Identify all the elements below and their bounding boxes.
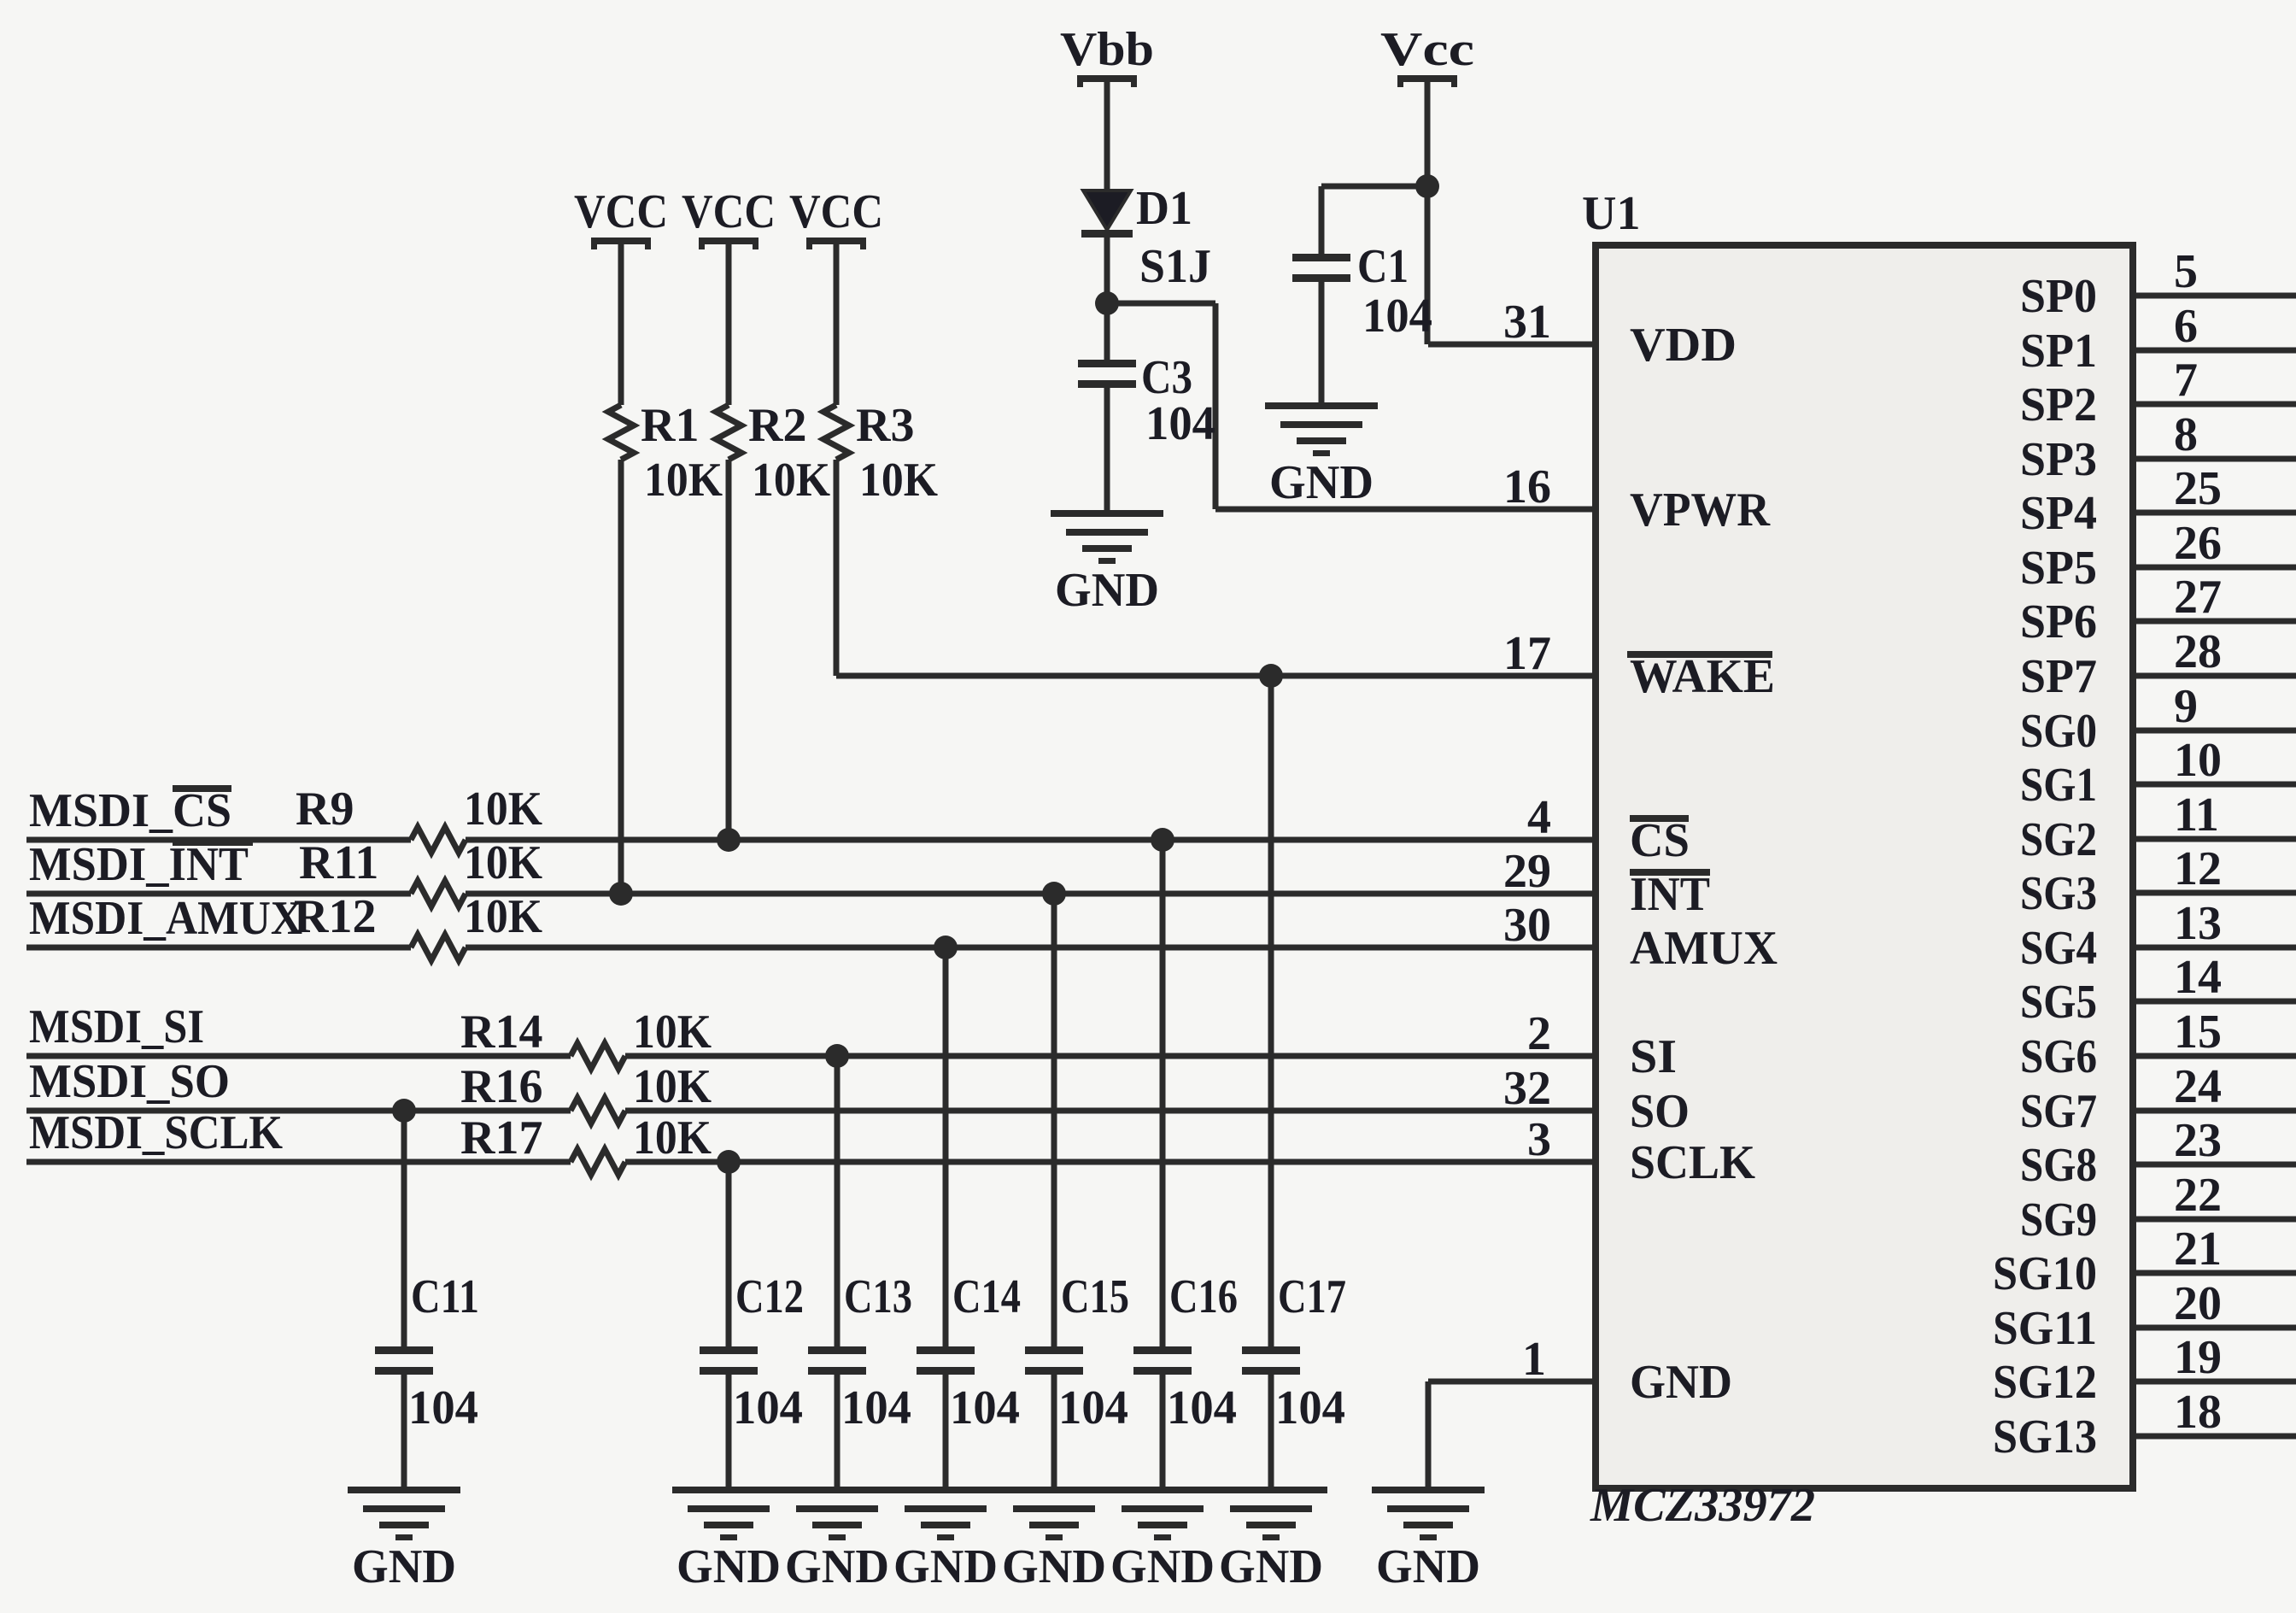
svg-text:24: 24 (2174, 1060, 2222, 1113)
svg-text:104: 104 (408, 1381, 478, 1434)
wire WAKE down to C17 (1268, 676, 1274, 1346)
svg-text:SG13: SG13 (1993, 1411, 2097, 1463)
wire pin 11 SG2 (2133, 836, 2296, 842)
svg-text:MCZ33972: MCZ33972 (1590, 1479, 1815, 1532)
ground below C11 (348, 1487, 460, 1593)
capacitor C13 (808, 1270, 912, 1375)
svg-text:MSDI_CS: MSDI_CS (29, 784, 231, 837)
wire C1 top (1319, 186, 1325, 254)
svg-text:C3: C3 (1141, 351, 1192, 404)
svg-text:29: 29 (1503, 845, 1551, 898)
wire C17 to ground (1268, 1375, 1274, 1487)
wire pin 26 SP5 (2133, 565, 2296, 571)
svg-text:10K: 10K (464, 890, 542, 943)
resistor R16 (571, 1098, 625, 1123)
svg-text:10K: 10K (644, 454, 723, 507)
svg-text:SG7: SG7 (2020, 1085, 2097, 1138)
svg-text:C13: C13 (844, 1270, 912, 1323)
junction C17 to WAKE line (1259, 664, 1283, 688)
wire C12 to ground (726, 1375, 732, 1487)
wire resistor R2 down (726, 460, 732, 840)
svg-text:SG0: SG0 (2020, 705, 2097, 758)
svg-text:R1: R1 (641, 399, 699, 452)
wire pin 28 SP7 (2133, 673, 2296, 679)
power symbol Vbb supply (1060, 23, 1154, 87)
svg-text:C11: C11 (411, 1270, 479, 1323)
wire node to VPWR drop (1107, 301, 1215, 307)
capacitor C11 (375, 1270, 479, 1375)
svg-text:GND: GND (1055, 564, 1159, 617)
wire VCC to resistor R2 (726, 244, 732, 405)
node Vcc / C1 junction (1415, 174, 1439, 198)
svg-text:SP4: SP4 (2020, 487, 2097, 540)
capacitor C14 (917, 1270, 1021, 1375)
svg-text:VCC: VCC (682, 185, 776, 238)
svg-text:SG5: SG5 (2020, 976, 2097, 1029)
svg-text:19: 19 (2174, 1331, 2222, 1384)
wire pin 22 SG9 (2133, 1217, 2296, 1223)
junction C11 to SO line (392, 1099, 416, 1123)
wire pin1 to ground drop (1426, 1381, 1432, 1487)
svg-text:32: 32 (1503, 1062, 1551, 1115)
svg-text:14: 14 (2174, 951, 2222, 1004)
wire pin 9 SG0 (2133, 728, 2296, 734)
svg-text:11: 11 (2174, 789, 2219, 842)
junction C16 to CS line (1151, 828, 1174, 852)
wire pin 4 CS net (26, 837, 411, 843)
svg-text:SG6: SG6 (2020, 1030, 2097, 1083)
svg-text:GND: GND (676, 1540, 781, 1593)
svg-text:R3: R3 (856, 399, 914, 452)
svg-text:31: 31 (1503, 296, 1551, 349)
wire SCLK down to C12 (726, 1162, 732, 1346)
wire C16 to ground (1160, 1375, 1166, 1487)
svg-text:104: 104 (841, 1381, 911, 1434)
wire junction to C1 (1321, 184, 1427, 190)
svg-text:C15: C15 (1061, 1270, 1129, 1323)
svg-text:MSDI_AMUX: MSDI_AMUX (29, 892, 302, 945)
wire pin 29 INT net (26, 891, 411, 897)
wire Vcc down to VDD pin (1425, 82, 1431, 344)
wire C13 to ground (835, 1375, 840, 1487)
wire pin 7 SP2 (2133, 402, 2296, 408)
resistor R3 (823, 405, 849, 460)
svg-text:104: 104 (1167, 1381, 1237, 1434)
wire diode cathode to node (1104, 238, 1110, 360)
svg-text:Vcc: Vcc (1380, 23, 1474, 76)
wire C1 to ground (1319, 282, 1325, 402)
wire pin 1 GND (1428, 1379, 1596, 1385)
junction C14 to AMUX line (934, 936, 958, 959)
ground below C3 (1051, 510, 1163, 617)
ground below pin 1 (1372, 1487, 1485, 1593)
svg-text:R2: R2 (748, 399, 806, 452)
svg-text:18: 18 (2174, 1386, 2222, 1439)
svg-text:SP0: SP0 (2020, 270, 2097, 323)
svg-text:17: 17 (1503, 627, 1551, 680)
svg-text:MSDI_SCLK: MSDI_SCLK (29, 1106, 283, 1159)
svg-text:Vbb: Vbb (1060, 23, 1154, 76)
svg-text:R11: R11 (299, 836, 378, 889)
capacitor C16 (1133, 1270, 1238, 1375)
wire VCC to resistor R3 (834, 244, 840, 405)
svg-text:R12: R12 (294, 890, 376, 943)
wire pin 27 SP6 (2133, 619, 2296, 625)
svg-text:SI: SI (1630, 1030, 1677, 1083)
wire VCC to resistor R1 (618, 244, 624, 405)
svg-text:SG9: SG9 (2020, 1194, 2097, 1246)
svg-text:SP7: SP7 (2020, 650, 2097, 703)
wire INT down to C15 (1051, 894, 1057, 1346)
svg-text:MSDI_INT: MSDI_INT (29, 838, 249, 891)
svg-text:R17: R17 (460, 1112, 542, 1164)
svg-text:104: 104 (1362, 290, 1432, 343)
svg-text:C14: C14 (952, 1270, 1021, 1323)
svg-text:SP2: SP2 (2020, 378, 2097, 431)
svg-text:2: 2 (1527, 1007, 1551, 1060)
svg-text:VPWR: VPWR (1630, 484, 1771, 537)
power symbol Vcc supply (1380, 23, 1474, 87)
svg-text:SG4: SG4 (2020, 922, 2097, 975)
wire pin 21 SG10 (2133, 1270, 2296, 1276)
wire pin 3 SCLK net (26, 1159, 571, 1165)
svg-text:SG11: SG11 (1993, 1302, 2097, 1355)
svg-text:MSDI_SO: MSDI_SO (29, 1055, 230, 1108)
svg-text:16: 16 (1503, 460, 1551, 513)
svg-text:15: 15 (2174, 1006, 2222, 1059)
svg-text:WAKE: WAKE (1630, 650, 1775, 703)
wire pin 13 SG4 (2133, 945, 2296, 951)
svg-text:R16: R16 (460, 1060, 542, 1113)
svg-text:SG10: SG10 (1993, 1247, 2097, 1300)
svg-text:10K: 10K (633, 1006, 712, 1059)
resistor R17 (571, 1149, 625, 1175)
svg-text:3: 3 (1527, 1113, 1551, 1166)
wire SO down to C11 (401, 1111, 407, 1346)
svg-text:9: 9 (2174, 680, 2198, 733)
resistor R11 (411, 881, 466, 906)
svg-text:SP6: SP6 (2020, 595, 2097, 648)
wire AMUX down to C14 (943, 947, 949, 1346)
svg-text:GND: GND (893, 1540, 998, 1593)
svg-text:25: 25 (2174, 462, 2222, 515)
svg-text:12: 12 (2174, 842, 2222, 895)
svg-text:SG1: SG1 (2020, 759, 2097, 812)
svg-text:VCC: VCC (574, 185, 668, 238)
svg-text:5: 5 (2174, 245, 2198, 298)
wire pin 5 SP0 (2133, 293, 2296, 299)
junction C12 to SCLK line (717, 1150, 741, 1174)
wire pin 12 SG3 (2133, 890, 2296, 896)
svg-text:6: 6 (2174, 300, 2198, 353)
resistor R12 (411, 935, 466, 960)
svg-text:10K: 10K (633, 1112, 712, 1164)
svg-text:10K: 10K (464, 783, 542, 836)
svg-text:SP3: SP3 (2020, 433, 2097, 486)
svg-text:VDD: VDD (1630, 319, 1737, 372)
wire resistor R1 down (618, 460, 624, 894)
wire SI down to C13 (835, 1056, 840, 1346)
capacitor C1 (1292, 240, 1409, 293)
wire pin 20 SG11 (2133, 1325, 2296, 1331)
svg-text:GND: GND (1219, 1540, 1323, 1593)
junction C13 to SI line (825, 1044, 849, 1068)
power symbol VCC rail for R1 (574, 185, 668, 249)
power symbol VCC rail for R3 (789, 185, 883, 249)
svg-text:30: 30 (1503, 899, 1551, 952)
svg-text:22: 22 (2174, 1169, 2222, 1222)
capacitor C17 (1242, 1270, 1346, 1375)
svg-text:MSDI_SI: MSDI_SI (29, 1000, 204, 1053)
svg-text:U1: U1 (1582, 187, 1640, 240)
svg-text:C17: C17 (1278, 1270, 1346, 1323)
svg-text:GND: GND (1376, 1540, 1480, 1593)
wire pin 6 SP1 (2133, 348, 2296, 354)
wire C3 to ground (1104, 388, 1110, 510)
wire pin 2 SI net (26, 1053, 571, 1059)
ground below C13 (781, 1487, 893, 1593)
svg-text:SO: SO (1630, 1085, 1690, 1138)
svg-text:28: 28 (2174, 625, 2222, 678)
svg-text:S1J: S1J (1139, 240, 1211, 293)
svg-text:CS: CS (1630, 814, 1690, 867)
capacitor C15 (1025, 1270, 1129, 1375)
diode D1 S1J (1081, 182, 1211, 293)
ground below C15 (998, 1487, 1110, 1593)
svg-text:104: 104 (1058, 1381, 1128, 1434)
wire VPWR vertical drop (1213, 303, 1219, 509)
ground below C1 (1265, 402, 1378, 509)
svg-text:7: 7 (2174, 354, 2198, 407)
svg-text:GND: GND (785, 1540, 889, 1593)
wire pin 25 SP4 (2133, 510, 2296, 516)
ground below C17 (1215, 1487, 1327, 1593)
svg-text:R9: R9 (296, 783, 354, 836)
svg-text:INT: INT (1630, 868, 1710, 921)
wire pin 10 SG1 (2133, 782, 2296, 788)
wire pin 16 VPWR (1215, 507, 1596, 513)
svg-text:26: 26 (2174, 517, 2222, 570)
capacitor C12 (700, 1270, 804, 1375)
svg-text:SCLK: SCLK (1630, 1136, 1755, 1189)
svg-text:SG3: SG3 (2020, 867, 2097, 920)
wire pin 14 SG5 (2133, 999, 2296, 1005)
resistor R2 (716, 405, 741, 460)
svg-text:SG12: SG12 (1993, 1356, 2097, 1409)
svg-text:104: 104 (1145, 397, 1215, 450)
svg-text:1: 1 (1522, 1333, 1546, 1386)
svg-text:104: 104 (1275, 1381, 1345, 1434)
resistor R1 (608, 405, 634, 460)
svg-text:GND: GND (352, 1540, 456, 1593)
junction R2 to CS (717, 828, 741, 852)
svg-text:4: 4 (1527, 791, 1551, 844)
svg-text:10K: 10K (633, 1060, 712, 1113)
wire CS down to C16 (1160, 840, 1166, 1346)
svg-text:104: 104 (950, 1381, 1020, 1434)
wire pin 18 SG13 (2133, 1434, 2296, 1440)
svg-text:AMUX: AMUX (1630, 922, 1778, 975)
wire resistor R3 down (834, 460, 840, 676)
svg-text:C12: C12 (735, 1270, 804, 1323)
svg-text:SG8: SG8 (2020, 1139, 2097, 1192)
svg-text:20: 20 (2174, 1277, 2222, 1330)
svg-text:SG2: SG2 (2020, 813, 2097, 866)
svg-text:GND: GND (1110, 1540, 1215, 1593)
svg-text:23: 23 (2174, 1114, 2222, 1167)
wire pin 31 VDD (1428, 342, 1596, 348)
svg-text:C16: C16 (1169, 1270, 1238, 1323)
wire pin 30 AMUX net (26, 945, 411, 951)
wire pin 17 WAKE net (836, 673, 1596, 679)
wire C15 to ground (1051, 1375, 1057, 1487)
node diode / C3 / VPWR junction (1095, 291, 1119, 315)
junction C15 to INT line (1042, 882, 1066, 906)
wire pin 19 SG12 (2133, 1379, 2296, 1385)
svg-text:10K: 10K (859, 454, 938, 507)
svg-text:VCC: VCC (789, 185, 883, 238)
wire pin 8 SP3 (2133, 456, 2296, 462)
resistor R14 (571, 1043, 625, 1069)
wire pin 24 SG7 (2133, 1108, 2296, 1114)
svg-text:SP1: SP1 (2020, 325, 2097, 378)
resistor R9 (411, 827, 466, 853)
svg-text:10K: 10K (464, 836, 542, 889)
wire pin 32 SO net (26, 1108, 571, 1114)
svg-text:104: 104 (733, 1381, 803, 1434)
svg-text:SP5: SP5 (2020, 542, 2097, 595)
svg-text:R14: R14 (460, 1006, 542, 1059)
ground below C14 (889, 1487, 1002, 1593)
wire Vbb to diode D1 (1104, 82, 1110, 192)
svg-text:10K: 10K (752, 454, 830, 507)
wire C14 to ground (943, 1375, 949, 1487)
svg-text:13: 13 (2174, 897, 2222, 950)
IC U1 body (MCZ33972) (1596, 245, 2133, 1488)
svg-text:8: 8 (2174, 408, 2198, 461)
junction R1 to INT (609, 882, 633, 906)
ground below C16 (1106, 1487, 1219, 1593)
wire pin 15 SG6 (2133, 1053, 2296, 1059)
svg-text:GND: GND (1002, 1540, 1106, 1593)
wire pin 23 SG8 (2133, 1162, 2296, 1168)
svg-text:21: 21 (2174, 1223, 2222, 1276)
svg-text:GND: GND (1269, 456, 1373, 509)
power symbol VCC rail for R2 (682, 185, 776, 249)
capacitor C3 (1078, 351, 1192, 404)
wire C11 to ground (401, 1375, 407, 1487)
svg-text:D1: D1 (1136, 182, 1192, 235)
svg-text:10: 10 (2174, 734, 2222, 787)
svg-text:C1: C1 (1357, 240, 1409, 293)
svg-text:GND: GND (1630, 1356, 1732, 1409)
ground below C12 (672, 1487, 785, 1593)
svg-text:27: 27 (2174, 571, 2222, 624)
